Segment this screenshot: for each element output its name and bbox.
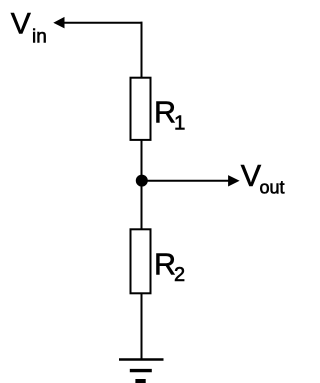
resistor R2 xyxy=(131,229,151,293)
svg-text:1: 1 xyxy=(174,112,185,135)
svg-text:2: 2 xyxy=(174,264,185,286)
wire Vout horizontal with arrow xyxy=(142,175,240,186)
wire from R1 to R2 through node xyxy=(141,140,143,229)
svg-text:out: out xyxy=(260,178,285,198)
node junction dot xyxy=(136,175,148,187)
svg-text:V: V xyxy=(11,8,31,41)
svg-text:R: R xyxy=(154,96,176,130)
node Vin label xyxy=(11,8,47,48)
R1 label xyxy=(154,96,185,135)
wire top horizontal with Vin arrow xyxy=(53,17,142,29)
wire vertical from top corner to R1 xyxy=(141,22,143,78)
node Vout label xyxy=(241,159,285,198)
svg-text:in: in xyxy=(32,27,47,48)
wire from R2 to ground xyxy=(141,293,143,359)
R2 label xyxy=(154,248,185,286)
resistor R1 xyxy=(131,78,151,140)
ground xyxy=(119,360,164,382)
svg-text:R: R xyxy=(154,248,176,282)
